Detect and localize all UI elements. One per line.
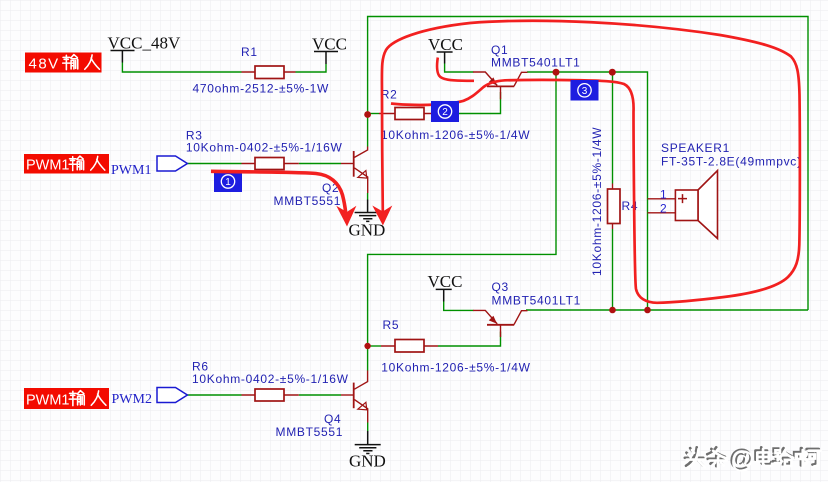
junction node dots (364, 69, 651, 350)
svg-text:MMBT5401LT1: MMBT5401LT1 (492, 294, 582, 308)
wire bottom rail (526, 309, 808, 311)
resistor R5 (381, 340, 438, 353)
svg-text:3: 3 (582, 86, 588, 97)
watermark toutiao at dianlu-a (685, 445, 820, 474)
resistor R6 (242, 389, 299, 401)
resistor R2 (379, 108, 438, 120)
ground GND (Q2) (355, 200, 381, 222)
wire Q2 emitter to GND (367, 193, 369, 200)
ground GND (Q4) (355, 431, 381, 454)
svg-text:PWM2: PWM2 (112, 392, 152, 407)
svg-text:VCC: VCC (428, 35, 463, 54)
wire R5 to node (368, 345, 381, 347)
wire Q1 collector rail (527, 72, 648, 310)
junction at R4 top (609, 69, 616, 76)
red label box PWM1 input (top) (24, 154, 109, 174)
red arrow (left, at GND Q2) (336, 206, 356, 227)
resistor R4 (608, 184, 621, 230)
svg-text:1: 1 (660, 188, 667, 202)
wire VCC_48V to R1 (122, 63, 241, 73)
svg-text:MMBT5551: MMBT5551 (276, 425, 344, 439)
svg-text:GND: GND (349, 452, 386, 471)
svg-text:PWM1: PWM1 (26, 393, 70, 409)
junction at R2/Q2 collector node (364, 111, 371, 118)
svg-text:MMBT5551: MMBT5551 (274, 194, 342, 208)
power port VCC (Q1) (437, 52, 453, 64)
blue callout box 1 (214, 171, 242, 192)
wire node to Q4 collector (368, 72, 556, 371)
svg-text:R1: R1 (241, 45, 258, 59)
transistor Q4 (NPN) (341, 371, 368, 423)
red annotation path B (VCC to Q1) (437, 58, 474, 81)
svg-text:2: 2 (660, 202, 667, 216)
speaker SPEAKER1 (648, 171, 718, 239)
wire Q2 collector to node (367, 114, 369, 147)
wire R6 to Q4 base (299, 394, 341, 396)
transistor Q1 (PNP) (473, 72, 528, 99)
junction at R5 left (364, 343, 370, 349)
power port VCC (Q3) (436, 289, 452, 301)
svg-text:R4: R4 (622, 199, 639, 213)
svg-text:GND: GND (349, 221, 386, 240)
wire outer rail top and right (368, 17, 808, 311)
port PWM1 (157, 156, 187, 171)
power port VCC_48V (111, 51, 135, 63)
wire R2 to Q1 base (438, 92, 501, 114)
svg-text:470ohm-2512-±5%-1W: 470ohm-2512-±5%-1W (193, 82, 330, 96)
svg-text:VCC_48V: VCC_48V (108, 34, 181, 53)
svg-text:PWM1: PWM1 (26, 158, 70, 174)
svg-text:48V: 48V (29, 56, 60, 73)
svg-text:10Kohm-1206-±5%-1/4W: 10Kohm-1206-±5%-1/4W (381, 361, 530, 375)
svg-text:VCC: VCC (312, 35, 347, 54)
svg-text:R5: R5 (383, 318, 400, 332)
junction at R4 bottom rail (609, 307, 616, 314)
svg-text:10Kohm-1206-±5%-1/4W: 10Kohm-1206-±5%-1/4W (590, 127, 604, 276)
wire PWM2 port to R6 (187, 394, 241, 396)
svg-text:PWM1: PWM1 (111, 163, 151, 178)
svg-text:Q3: Q3 (492, 280, 509, 294)
power port VCC (right of R1) (314, 52, 338, 65)
transistor Q2 (NPN) (341, 147, 368, 194)
wire R4 to bottom rail (612, 229, 614, 310)
port PWM2 (157, 388, 187, 403)
svg-text:1: 1 (225, 177, 231, 188)
svg-text:Q4: Q4 (324, 412, 341, 426)
red annotation path C (big loop) (382, 21, 800, 303)
svg-text:VCC: VCC (428, 272, 463, 291)
red label box 48V input (25, 53, 102, 73)
svg-text:10Kohm-0402-±5%-1/16W: 10Kohm-0402-±5%-1/16W (186, 141, 343, 155)
resistor R3 (242, 158, 299, 170)
wire node to R4 (612, 72, 614, 184)
wire Q4 emitter to GND (367, 423, 369, 432)
red label box PWM1 input (bottom) (24, 388, 109, 409)
red arrow (right, at GND Q2) (372, 206, 392, 226)
wire R3 to Q2 base (299, 163, 341, 165)
svg-text:2: 2 (442, 107, 448, 118)
resistor R1 (242, 66, 296, 79)
svg-text:10Kohm-0402-±5%-1/16W: 10Kohm-0402-±5%-1/16W (192, 372, 349, 386)
svg-text:10Kohm-1206-±5%-1/4W: 10Kohm-1206-±5%-1/4W (381, 128, 530, 142)
svg-text:FT-35T-2.8E(49mmpvc): FT-35T-2.8E(49mmpvc) (661, 155, 802, 169)
wire node to R2 (368, 113, 379, 115)
transistor Q3 (PNP) (473, 310, 528, 337)
junction at speaker rail (644, 307, 651, 314)
wire Q3 base to R5 (438, 332, 501, 347)
svg-text:@: @ (731, 447, 754, 474)
blue callout box 3 (571, 80, 599, 101)
junction at Q1 collector rail (553, 69, 560, 76)
wire PWM1 port to R3 (187, 163, 241, 165)
blue callout box 2 (431, 101, 459, 122)
wire R1 to VCC (296, 64, 327, 72)
svg-text:SPEAKER1: SPEAKER1 (661, 141, 730, 155)
svg-text:MMBT5401LT1: MMBT5401LT1 (491, 56, 581, 70)
red annotation path A (PWM1 underline) (211, 171, 346, 212)
wire VCC to Q3 emitter (444, 302, 474, 311)
wire VCC to Q1 emitter (445, 64, 474, 73)
